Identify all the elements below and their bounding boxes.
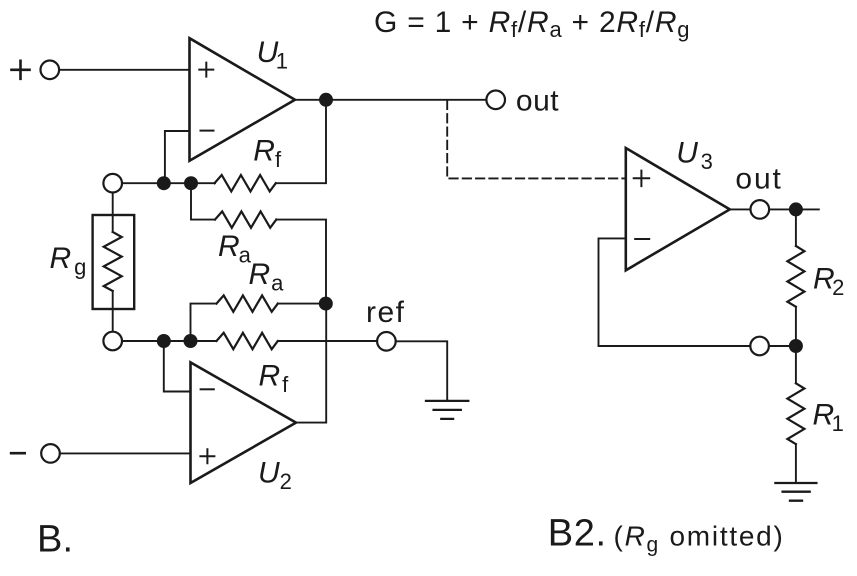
wire (795, 307, 797, 346)
node A junction (157, 176, 171, 190)
op-amp U1 (190, 38, 296, 161)
U2 - input pin mark (201, 388, 214, 390)
svg-text:ref: ref (366, 296, 406, 329)
wire (795, 209, 797, 246)
svg-text:out: out (516, 84, 559, 117)
svg-text:R2: R2 (813, 263, 844, 301)
resistor Rg box (93, 215, 135, 309)
svg-text:Ra: Ra (249, 258, 285, 296)
junction (feedback node) (789, 339, 803, 353)
node C junction 2 (184, 334, 198, 348)
wire (276, 220, 326, 304)
wire (U1 output) (295, 99, 486, 101)
U1 + input pin mark (199, 63, 213, 77)
+ input terminal label (12, 61, 30, 79)
wire (node C) (122, 340, 217, 342)
ref terminal (377, 332, 396, 351)
wire (112, 193, 114, 233)
U1 - input pin mark (201, 130, 214, 132)
svg-text:B.: B. (37, 519, 73, 561)
U2 + input pin mark (200, 449, 214, 463)
wire (769, 345, 796, 347)
resistor Ra (lower) (217, 295, 278, 311)
svg-text:B2.: B2. (548, 513, 607, 555)
svg-text:Rg: Rg (50, 242, 90, 280)
resistor Rg (104, 232, 122, 291)
wire (278, 303, 326, 305)
+ input terminal (41, 61, 60, 80)
Rg top terminal (103, 174, 122, 193)
wire (795, 444, 797, 482)
svg-text:Ra: Ra (218, 230, 252, 268)
ground (B2) (775, 483, 816, 501)
- input terminal label (11, 452, 25, 455)
resistor R2 (787, 246, 804, 307)
Rg bottom terminal (103, 332, 122, 351)
wire (59, 69, 189, 71)
svg-text:out: out (735, 162, 782, 195)
U3 + input pin mark (634, 171, 650, 187)
junction (B2 out) (789, 202, 803, 216)
ground (ref) (426, 401, 468, 419)
dashed wire (447, 101, 626, 179)
svg-text:Rf: Rf (259, 360, 291, 398)
op-amp U2 (191, 362, 297, 483)
U3 - input pin mark (635, 238, 649, 240)
svg-text:(Rg omitted): (Rg omitted) (614, 521, 785, 557)
svg-text:G = 1 + Rf/Ra + 2Rf/Rg: G = 1 + Rf/Ra + 2Rf/Rg (374, 6, 690, 42)
node C junction (157, 334, 171, 348)
out terminal (B2) (751, 200, 770, 219)
resistor Ra (upper) (215, 211, 276, 227)
op-amp U3 (626, 148, 730, 270)
wire (795, 346, 797, 383)
wire (191, 304, 217, 341)
svg-text:U2: U2 (258, 457, 292, 495)
wire (60, 452, 191, 454)
svg-text:R1: R1 (813, 399, 844, 437)
wire (278, 340, 377, 342)
wire (U3 feedback) (599, 238, 751, 346)
out terminal (486, 91, 505, 110)
feedback terminal (750, 337, 769, 356)
wire (112, 291, 114, 332)
wire (U2 inverting input) (164, 341, 191, 392)
svg-text:Rf: Rf (253, 134, 282, 172)
svg-text:U3: U3 (676, 137, 716, 175)
- input terminal (41, 444, 60, 463)
svg-text:U1: U1 (257, 36, 288, 74)
resistor R1 (787, 383, 804, 444)
wire (191, 183, 215, 219)
wire (769, 208, 819, 210)
resistor Rf (lower) (217, 333, 278, 349)
wire (396, 341, 448, 399)
resistor Rf (upper) (215, 175, 276, 191)
wire (730, 208, 751, 210)
wire (node A) (122, 182, 215, 184)
junction node D (319, 297, 333, 311)
wire (U1 inverting input) (165, 131, 190, 183)
wire (U2 output) (296, 304, 326, 423)
wire (276, 100, 326, 183)
node A junction 2 (184, 176, 198, 190)
junction at U1 output (319, 93, 333, 107)
